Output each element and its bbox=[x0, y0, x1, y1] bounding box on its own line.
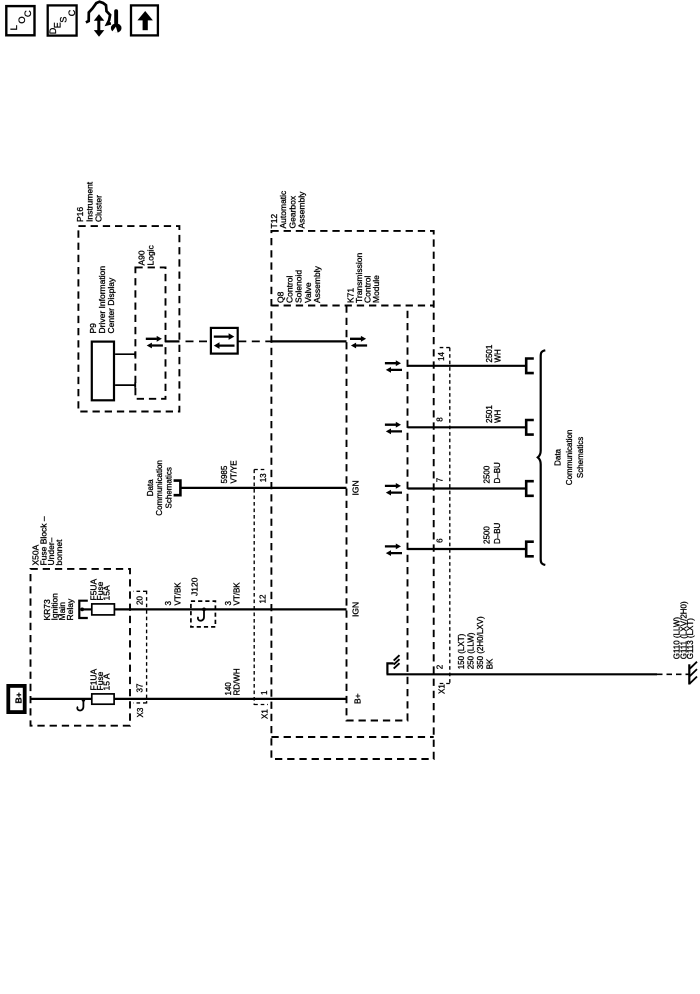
serial data wire A90 to P16 edge bbox=[165, 340, 180, 342]
relay contact bracket bbox=[79, 601, 88, 618]
wire label 5985 VT/YE bbox=[220, 460, 239, 483]
wire label 140 RD/WH bbox=[224, 668, 242, 695]
svg-text:J120: J120 bbox=[190, 577, 200, 596]
wire data circuit 3 (pin 7) bbox=[408, 487, 526, 489]
wire label 3 VT/BK (left) bbox=[164, 582, 183, 606]
serial data arrows in A90 bbox=[146, 336, 163, 349]
serial data arrows at K71 wire 1 bbox=[385, 344, 534, 373]
svg-text:D–BU: D–BU bbox=[493, 462, 502, 484]
svg-text:Data: Data bbox=[554, 448, 563, 465]
X1 connector line (right) bbox=[437, 348, 450, 694]
svg-text:X1: X1 bbox=[438, 684, 447, 694]
X1 connector line (left) bbox=[254, 470, 269, 720]
brace bbox=[538, 350, 546, 565]
svg-text:C: C bbox=[67, 9, 77, 16]
wire data circuit 1 (pin 14) bbox=[408, 365, 526, 367]
svg-text:B+: B+ bbox=[353, 693, 363, 704]
Q8 Control Solenoid Valve Assembly region (top/bottom edges) bbox=[271, 305, 433, 307]
svg-text:8: 8 bbox=[436, 417, 445, 422]
svg-text:150 (LXT): 150 (LXT) bbox=[457, 633, 466, 669]
X50A Fuse Block Underbonnet box bbox=[31, 569, 131, 726]
svg-text:L: L bbox=[9, 25, 20, 30]
svg-text:X1: X1 bbox=[261, 709, 270, 719]
svg-text:5985: 5985 bbox=[220, 465, 229, 483]
icon LOC box bbox=[6, 6, 34, 35]
svg-text:B+: B+ bbox=[14, 692, 24, 703]
ground wire (pin 2) bbox=[387, 673, 658, 675]
B+ terminal box bbox=[8, 686, 24, 712]
serial data arrows in K71 bbox=[350, 336, 367, 349]
F1UA Fuse 15 A bbox=[89, 668, 115, 704]
svg-text:Communication: Communication bbox=[565, 430, 574, 486]
svg-text:Communication: Communication bbox=[155, 460, 164, 516]
wire data circuit 4 (pin 6) bbox=[408, 548, 526, 550]
serial wire T12 edge to K71 edge bbox=[271, 340, 346, 342]
svg-text:S: S bbox=[59, 17, 69, 23]
A90 Logic box bbox=[135, 267, 165, 398]
svg-text:2: 2 bbox=[436, 664, 445, 669]
svg-text:2500: 2500 bbox=[483, 526, 492, 544]
svg-text:37: 37 bbox=[136, 683, 145, 692]
svg-text:3: 3 bbox=[164, 601, 173, 606]
svg-text:15A: 15A bbox=[102, 585, 112, 600]
X3 connector line bbox=[133, 591, 146, 718]
K71 Transmission Control Module box bbox=[347, 306, 408, 721]
svg-text:RD/WH: RD/WH bbox=[233, 668, 242, 695]
svg-text:IGN: IGN bbox=[351, 602, 361, 617]
svg-text:6: 6 bbox=[436, 538, 445, 543]
ground symbol in K71 bbox=[387, 655, 399, 674]
svg-text:WH: WH bbox=[493, 409, 502, 423]
svg-text:VT/YE: VT/YE bbox=[230, 460, 239, 483]
svg-text:bonnet: bonnet bbox=[54, 539, 64, 566]
svg-text:Assembly: Assembly bbox=[297, 191, 307, 229]
svg-text:250 (LLW): 250 (LLW) bbox=[467, 632, 476, 669]
F5UA Fuse 15A bbox=[82, 578, 114, 614]
IGN wire fuse to K71 bbox=[114, 608, 346, 610]
icon DESC box bbox=[48, 5, 77, 35]
svg-text:20: 20 bbox=[136, 596, 145, 605]
svg-text:Logic: Logic bbox=[146, 244, 156, 265]
bus connector box with arrows bbox=[211, 328, 238, 354]
icon vehicle with arrows and wrench bbox=[86, 2, 122, 37]
wire label 3 VT/BK (right) bbox=[224, 582, 242, 606]
svg-text:VT/BK: VT/BK bbox=[233, 582, 242, 606]
svg-text:350 (2H0/LXV): 350 (2H0/LXV) bbox=[476, 616, 485, 669]
svg-text:2500: 2500 bbox=[483, 465, 492, 483]
data communication bracket (left) bbox=[174, 481, 181, 496]
svg-text:X3: X3 bbox=[136, 707, 145, 717]
label Data Communication Schematics (right) bbox=[554, 430, 585, 486]
ground symbol G110/G111/G113 bbox=[689, 662, 697, 685]
P16 Instrument Cluster box bbox=[78, 226, 179, 411]
svg-text:IGN: IGN bbox=[351, 480, 361, 495]
svg-text:WH: WH bbox=[493, 349, 502, 363]
svg-text:Center Display: Center Display bbox=[106, 277, 116, 333]
wire P9 pin to A90 (lower) bbox=[115, 384, 135, 386]
svg-text:VT/BK: VT/BK bbox=[174, 582, 183, 606]
svg-text:12: 12 bbox=[259, 594, 268, 603]
svg-text:C: C bbox=[23, 10, 34, 17]
serial data arrows at K71 wire 2 bbox=[385, 405, 534, 435]
label Data Communication Schematics (left) bbox=[146, 460, 174, 516]
serial data arrows at K71 wire 4 bbox=[385, 522, 534, 556]
connector end to data schematics (wire 2) bbox=[526, 420, 534, 435]
serial data arrows at K71 wire 3 bbox=[385, 462, 534, 496]
svg-text:14: 14 bbox=[437, 352, 446, 361]
svg-text:G113 (LXT): G113 (LXT) bbox=[686, 618, 695, 660]
dashed serial wire bus symbol to T12 bbox=[238, 340, 271, 342]
svg-text:13: 13 bbox=[259, 473, 268, 482]
P9 Driver Information Center Display bbox=[92, 342, 114, 401]
svg-text:Module: Module bbox=[371, 275, 381, 303]
wire P9 pin to A90 (upper) bbox=[115, 353, 135, 355]
svg-text:Schematics: Schematics bbox=[165, 467, 174, 508]
splice hook at F1UA bbox=[77, 698, 85, 710]
svg-text:7: 7 bbox=[436, 477, 445, 482]
svg-text:Schematics: Schematics bbox=[576, 437, 585, 478]
ground wire labels bbox=[457, 616, 495, 669]
5985 wire bbox=[181, 487, 346, 489]
T12 Automatic Gearbox Assembly box bbox=[271, 231, 433, 759]
svg-text:Relay: Relay bbox=[65, 598, 75, 620]
connector end to data schematics (wire 3) bbox=[526, 481, 534, 496]
icon up-arrow box bbox=[131, 5, 158, 35]
svg-text:Assembly: Assembly bbox=[312, 265, 322, 303]
svg-text:1: 1 bbox=[260, 690, 269, 695]
wire data circuit 2 (pin 8) bbox=[408, 426, 526, 428]
svg-text:15 A: 15 A bbox=[102, 673, 112, 690]
KR73 Ignition Main Relay label bbox=[42, 593, 75, 621]
svg-text:Cluster: Cluster bbox=[94, 195, 104, 222]
J120 inline connector bbox=[190, 577, 216, 627]
label P16 Instrument Cluster bbox=[75, 181, 104, 222]
svg-text:Data: Data bbox=[146, 479, 155, 496]
B+ wire from fuse block edge through F1UA to K71 bbox=[31, 698, 92, 700]
svg-text:BK: BK bbox=[486, 658, 495, 669]
connector end to data schematics (wire 1) bbox=[526, 359, 534, 374]
svg-text:D–BU: D–BU bbox=[493, 522, 502, 544]
connector end to data schematics (wire 4) bbox=[526, 542, 534, 557]
dashed serial wire to bus symbol bbox=[181, 340, 211, 342]
